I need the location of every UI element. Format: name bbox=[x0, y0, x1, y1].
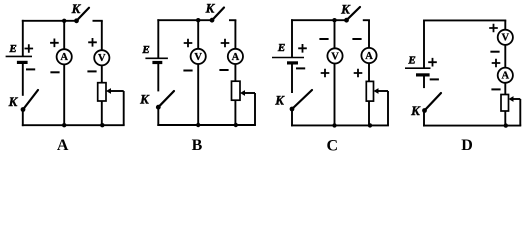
svg-text:E: E bbox=[141, 44, 149, 56]
svg-text:A: A bbox=[502, 71, 510, 82]
svg-text:A: A bbox=[60, 52, 68, 63]
voltmeter plus sign D bbox=[489, 24, 498, 33]
switch K-bottom C blade bbox=[292, 90, 312, 109]
battery C minus sign bbox=[296, 67, 305, 69]
wire: top left horizontal A bbox=[22, 20, 77, 22]
wire: right branch meter-to-rheostat A bbox=[101, 65, 103, 82]
rheostat A wiper arrow bbox=[106, 88, 111, 94]
wire: bottom horizontal C bbox=[291, 124, 389, 126]
meter2 bottom sign C bbox=[354, 69, 363, 78]
node: bottom junction middle B bbox=[196, 123, 200, 127]
wire: top right horizontal C bbox=[363, 19, 370, 21]
rheostat A wiper wire down bbox=[123, 91, 125, 125]
rheostat C wiper wire down bbox=[387, 91, 389, 125]
ammeter minus sign D bbox=[491, 88, 500, 90]
wire: left branch switch-to-bottom D bbox=[423, 111, 425, 127]
wire: right branch ammeter-to-rheostat D bbox=[504, 83, 506, 95]
svg-text:E: E bbox=[407, 55, 415, 67]
svg-text:K: K bbox=[8, 94, 19, 109]
meter1 top sign B bbox=[184, 39, 193, 48]
svg-text:D: D bbox=[461, 137, 473, 154]
meter A1 circle A bbox=[57, 49, 72, 64]
svg-text:V: V bbox=[98, 53, 106, 64]
meter1 bottom sign A bbox=[50, 71, 59, 73]
node: bottom junction middle C bbox=[332, 123, 336, 127]
rheostat B box bbox=[232, 81, 241, 100]
wire: middle branch below meter A bbox=[63, 64, 65, 125]
meter1 top sign C bbox=[319, 38, 328, 40]
ammeter A circle D bbox=[498, 68, 513, 83]
meter V1 circle C bbox=[327, 48, 342, 63]
wire: left branch middle (battery to switch) A bbox=[22, 62, 24, 95]
wire: right branch rheostat-to-bottom A bbox=[101, 101, 103, 125]
meter1 bottom sign B bbox=[183, 70, 192, 72]
svg-text:K: K bbox=[410, 103, 421, 118]
rheostat D box bbox=[501, 95, 509, 112]
wire: bottom horizontal B bbox=[157, 124, 256, 126]
wire: right branch voltmeter-to-ammeter D bbox=[504, 45, 506, 68]
wire: left branch upper D bbox=[423, 20, 425, 68]
rheostat D wiper arrow bbox=[509, 96, 514, 102]
switch K-bottom C pivot dot bbox=[290, 107, 295, 112]
svg-text:A: A bbox=[57, 137, 69, 154]
rheostat C wiper arrow bbox=[374, 88, 379, 94]
switch K-bottom B pivot dot bbox=[156, 105, 161, 110]
svg-text:K: K bbox=[340, 1, 351, 16]
svg-text:K: K bbox=[139, 91, 150, 106]
wire: left branch lower (switch to bottom) B bbox=[157, 107, 159, 126]
meter V1 circle B bbox=[191, 49, 206, 64]
battery A plus sign bbox=[25, 44, 34, 53]
meter A2 circle C bbox=[361, 48, 376, 63]
ammeter plus sign D bbox=[492, 59, 501, 68]
svg-text:V: V bbox=[194, 52, 202, 63]
svg-text:A: A bbox=[232, 52, 240, 63]
meter2 top sign A bbox=[88, 38, 97, 47]
wire: middle branch above meter B bbox=[197, 20, 199, 49]
wire: top left horizontal C bbox=[291, 19, 346, 21]
wire: right branch rheostat-to-bottom B bbox=[234, 100, 236, 125]
switch K-top A pivot dot bbox=[74, 18, 79, 23]
svg-text:K: K bbox=[205, 1, 216, 16]
switch K-top A blade bbox=[77, 8, 90, 21]
battery D short thick plate bbox=[416, 73, 430, 76]
wire: top right horizontal B bbox=[229, 19, 236, 21]
wire: right branch rheostat-to-bottom D bbox=[504, 111, 506, 126]
wire: top horizontal D bbox=[423, 19, 506, 21]
meter2 bottom sign B bbox=[219, 69, 228, 71]
meter2 bottom sign A bbox=[87, 70, 96, 72]
battery D long plate bbox=[405, 67, 431, 69]
rheostat B wiper arrow bbox=[240, 90, 245, 96]
battery D minus sign bbox=[430, 78, 439, 80]
wire: left branch battery-to-switch D bbox=[423, 75, 425, 88]
wire: left branch upper (top to battery) A bbox=[22, 20, 24, 57]
rheostat D wiper wire to right bbox=[513, 98, 521, 100]
rheostat B wiper wire to right bbox=[244, 92, 255, 94]
battery D plus sign bbox=[428, 58, 437, 67]
switch K-bottom B blade bbox=[158, 91, 174, 107]
switch K-bottom A blade bbox=[23, 90, 38, 110]
switch K-top B pivot dot bbox=[210, 18, 215, 23]
rheostat A wiper wire to right bbox=[110, 90, 124, 92]
svg-text:V: V bbox=[331, 51, 339, 62]
rheostat C wiper wire to right bbox=[378, 90, 389, 92]
switch K D blade bbox=[425, 93, 442, 111]
wire: left branch lower (switch to bottom) C bbox=[291, 109, 293, 126]
svg-text:K: K bbox=[274, 92, 285, 107]
wire: right branch meter-to-rheostat C bbox=[368, 63, 370, 81]
node: bottom junction right A bbox=[100, 123, 104, 127]
switch K-bottom A pivot dot bbox=[21, 107, 26, 112]
wire: right branch rheostat-to-bottom C bbox=[368, 101, 370, 125]
wire: left branch lower (switch to bottom) A bbox=[22, 110, 24, 127]
battery A minus sign bbox=[26, 68, 35, 70]
battery C long plate bbox=[272, 57, 304, 59]
meter A2 circle B bbox=[228, 49, 243, 64]
node: bottom junction middle A bbox=[62, 123, 66, 127]
battery B long plate bbox=[145, 57, 168, 59]
wire: left branch upper (top to battery) C bbox=[291, 19, 293, 57]
wire: right branch meter-to-rheostat B bbox=[234, 64, 236, 81]
svg-text:C: C bbox=[327, 138, 339, 155]
battery A short thick plate bbox=[17, 61, 28, 64]
wire: bottom horizontal A bbox=[22, 124, 125, 126]
node: bottom junction right B bbox=[234, 123, 238, 127]
meter1 bottom sign C bbox=[321, 69, 330, 78]
switch K-top C blade bbox=[347, 7, 361, 20]
node: top junction B bbox=[196, 18, 200, 22]
rheostat A box bbox=[98, 83, 106, 101]
switch K D pivot dot bbox=[422, 108, 427, 113]
node: top junction A bbox=[62, 19, 66, 23]
svg-text:V: V bbox=[502, 33, 510, 44]
meter1 top sign A bbox=[50, 39, 59, 48]
wire: middle branch below meter C bbox=[334, 64, 336, 126]
wire: left branch middle (battery to switch) B bbox=[157, 63, 159, 92]
rheostat B wiper wire down bbox=[254, 93, 256, 125]
wire: middle branch below meter B bbox=[197, 64, 199, 125]
wire: right branch above meter A bbox=[101, 21, 103, 50]
switch K-top B blade bbox=[212, 8, 224, 21]
meter2 top sign C bbox=[352, 38, 361, 40]
svg-text:K: K bbox=[71, 1, 82, 16]
wire: left branch upper (top to battery) B bbox=[157, 19, 159, 58]
rheostat D wiper wire down bbox=[519, 99, 521, 126]
wire: bottom horizontal D bbox=[423, 125, 521, 127]
node: bottom junction right C bbox=[368, 123, 372, 127]
wire: right branch above meter B bbox=[234, 20, 236, 49]
battery A long plate bbox=[6, 55, 32, 57]
battery C plus sign bbox=[298, 44, 307, 53]
meter2 top sign B bbox=[221, 39, 230, 48]
node: top junction C bbox=[332, 18, 336, 22]
wire: left branch middle (battery to switch) C bbox=[291, 63, 293, 93]
wire: top left horizontal B bbox=[157, 19, 212, 21]
rheostat C box bbox=[366, 81, 373, 101]
svg-text:E: E bbox=[277, 42, 285, 54]
svg-text:A: A bbox=[365, 51, 373, 62]
wire: top right horizontal A bbox=[93, 20, 103, 22]
svg-text:E: E bbox=[8, 43, 16, 55]
node: bottom junction D bbox=[504, 123, 508, 127]
voltmeter minus sign D bbox=[490, 51, 499, 53]
wire: right branch top-to-voltmeter D bbox=[504, 20, 506, 29]
meter V2 circle A bbox=[94, 50, 109, 65]
svg-text:B: B bbox=[192, 137, 203, 154]
switch K-top C pivot dot bbox=[344, 18, 349, 23]
battery C short thick plate bbox=[287, 61, 298, 64]
battery B short thick plate bbox=[152, 61, 162, 64]
wire: right branch above meter C bbox=[368, 20, 370, 48]
voltmeter V circle D bbox=[498, 30, 513, 45]
wire: middle branch above meter A bbox=[63, 21, 65, 49]
wire: middle branch above meter C bbox=[334, 20, 336, 48]
